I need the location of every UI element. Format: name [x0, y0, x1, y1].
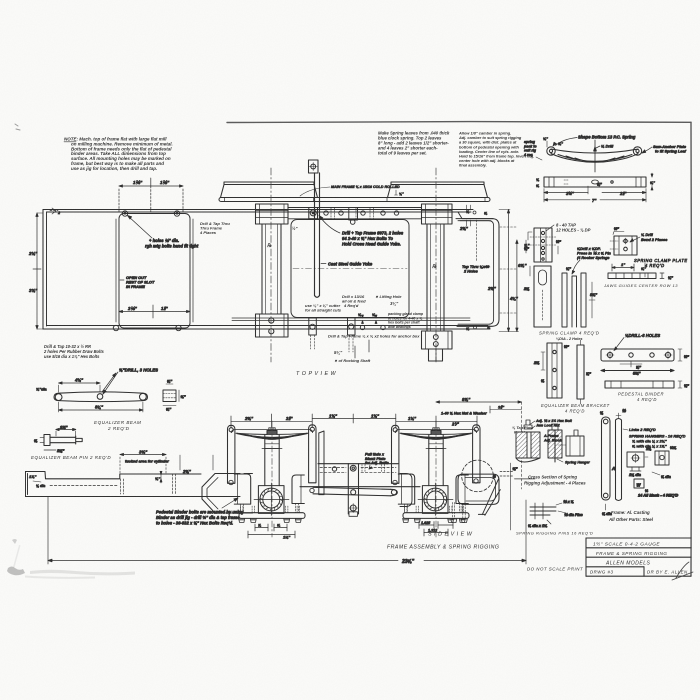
- FRAME ASSEMBLY caption: [387, 545, 499, 551]
- vertical dim 2-13/16 / 3-3/8 left of frame: [28, 213, 43, 329]
- label 5/8 drill 3 holes with leader: [103, 368, 158, 395]
- guide yoke bolt block on rail: [309, 208, 318, 219]
- spring clamp plate labels: [630, 232, 688, 268]
- main frame material label: [300, 185, 404, 196]
- equalizer beam pin detail: [34, 425, 82, 454]
- one inch bar dim: [612, 262, 646, 277]
- top view: spring seat bar (dome flange) full-length: [219, 198, 490, 202]
- pedestal binder bar detail: [601, 349, 689, 388]
- rigging pins caption: [516, 531, 593, 536]
- corner tick top-left: [15, 124, 20, 130]
- spring clamp plate detail: [610, 227, 637, 255]
- equalizer beam detail dims: [36, 373, 143, 412]
- left inner frame opening (rounded rect): [116, 214, 193, 329]
- leader note: 4 holes 5/16 dia: [128, 216, 199, 249]
- slotted bar details below: [523, 266, 551, 327]
- left column plan: body and flanges: [256, 204, 289, 337]
- do not scale print: [527, 567, 583, 572]
- overall length dim 23-5/8: [48, 497, 526, 565]
- sheet top border line: [227, 121, 691, 124]
- 8-40 tap detail caption: [546, 223, 591, 233]
- spring hanger links detail: [600, 409, 626, 516]
- top view: main frame lower rail pair: [43, 326, 490, 330]
- left pedestal: spring buckle and column: [262, 428, 282, 486]
- left pedestal: jaw cheek plates: [234, 474, 304, 513]
- right pedestal: hanger bottom eyes: [393, 479, 478, 485]
- right pedestal: jaw cheek plates: [398, 474, 468, 513]
- dim row above pedestals: [231, 412, 487, 428]
- right pedestal: driving axlebox with journal: [418, 483, 453, 516]
- right pedestal: spring hangers: [392, 425, 480, 484]
- side view: right pedestal jaw and rear end: [451, 460, 535, 530]
- thin guide bars: [562, 267, 597, 327]
- dim 2-5/16 and 1-1/16 below left opening: [119, 305, 190, 318]
- top view: inner bottom rail pair: [232, 318, 470, 321]
- equalizer beam end section detail: [163, 379, 186, 412]
- centerline right cylinder column: [435, 168, 437, 362]
- leaf spring detail (top right): [547, 140, 642, 172]
- dome cap left (spring pocket plan): [221, 182, 318, 198]
- perforated cross bar between columns: [288, 208, 422, 225]
- smudge bottom-left: [7, 539, 135, 579]
- bolt blocks on lower rail: [309, 318, 385, 336]
- equalizer beam caption: [94, 420, 141, 431]
- title row 2: drawing name: [596, 551, 668, 556]
- drilled block detail left: [524, 228, 561, 262]
- frame material note: [608, 510, 654, 522]
- pedestal binder caption: [618, 392, 664, 402]
- spring hanger labels: [623, 427, 686, 449]
- small dim arrows mid lower rail: [355, 313, 436, 361]
- note right of right jaw: [512, 425, 534, 435]
- note: drill tap frame for guide yoke: [319, 216, 404, 247]
- equalizer bracket caption: [541, 403, 610, 414]
- adjusting block details right: [627, 446, 678, 498]
- dims top right of side view: [436, 397, 522, 489]
- note bottom-left: drill and tap bolts: [43, 344, 105, 359]
- left end small marks on upper rail: [50, 208, 61, 215]
- middle opening horizontal centerline: [293, 268, 407, 270]
- spring rigging pin detail bottom-left: [528, 500, 583, 528]
- notes near lower rail center: [305, 294, 424, 363]
- segmented jaw guide strip: [608, 273, 673, 280]
- title row 1: scale and gauge: [593, 540, 660, 547]
- left pedestal: hanger bottom eyes: [229, 480, 314, 492]
- right column plan: body and flanges: [422, 204, 453, 361]
- camber note: [458, 131, 534, 168]
- 1/8 drill 8 holes caption: [614, 333, 660, 351]
- sheet right border line: [690, 122, 693, 576]
- crosshead guide yoke bar (vertical): [309, 160, 320, 297]
- general note block: [64, 137, 173, 171]
- TOP VIEW caption: [296, 371, 337, 377]
- left driver pedestal: leaf spring: [231, 429, 312, 439]
- label R on centerline: [267, 226, 437, 270]
- title row 3: company: [605, 561, 651, 567]
- dim line 1-7/8 and 1-5/16 above left opening: [119, 178, 183, 212]
- pin press note: [572, 247, 612, 274]
- cross-section caption: [524, 475, 586, 486]
- spring leaves note: [378, 131, 450, 156]
- note: open out rest of slot: [120, 275, 155, 289]
- dims left of side view: [29, 450, 213, 489]
- spring seat bar detail: [544, 177, 646, 187]
- dome cap right (spring pocket plan): [388, 182, 488, 198]
- right end dims of top view: [459, 205, 530, 332]
- side view: rail between pedestals: [300, 464, 420, 487]
- top view: rear narrow rail step: [458, 212, 493, 221]
- title row 4: drawing number and signature: [590, 562, 693, 580]
- spring anchor link behind left pedestal right hanger: [319, 431, 324, 495]
- note full thds blank plate: [365, 453, 389, 470]
- right driver pedestal: leaf spring: [395, 429, 476, 439]
- middle inner frame opening: [291, 220, 409, 318]
- label cast steel guide yoke: [321, 262, 373, 267]
- side view: left pedestal jaw: [202, 474, 253, 514]
- spring detail labels: [523, 135, 687, 161]
- jaw guides caption: [603, 283, 678, 288]
- right pedestal: centerline: [435, 421, 437, 537]
- top view: main frame upper rail pair: [43, 210, 473, 213]
- left pedestal: spring hangers: [228, 425, 316, 484]
- dashed bolt stems below lower rail: [311, 335, 354, 352]
- centerline left cylinder column: [270, 168, 272, 362]
- title block box: [586, 538, 691, 576]
- side view: frame left end profile: [26, 472, 241, 497]
- left pedestal: centerline: [271, 421, 273, 537]
- corner bolt circles of left opening: [113, 211, 181, 331]
- right pedestal: binder and bolts: [403, 506, 469, 522]
- equalizer pin caption: [31, 455, 111, 460]
- note: drill and tap thru frame 4 places: [199, 221, 230, 235]
- cross-section labels: [529, 419, 590, 465]
- left pedestal: driving axlebox with journal: [254, 483, 289, 516]
- top view: frame rear right end rounded: [456, 219, 499, 327]
- spring clamp caption: [539, 331, 599, 342]
- top view: frame left end double edge: [43, 210, 47, 330]
- spring seat dims: [536, 173, 655, 203]
- cross-section of spring rigging (hatched): [516, 420, 584, 462]
- pedestal binder note: [156, 498, 244, 526]
- equalizer beam detail: [54, 392, 148, 402]
- dims below pedestals: [248, 521, 453, 540]
- side view: equalizer beam centre assembly: [313, 464, 397, 517]
- side view: plate left of right pedestal: [400, 474, 412, 507]
- right pedestal: spring buckle and column: [426, 428, 446, 486]
- SIDE VIEW caption: [428, 532, 473, 538]
- equalizer beam bracket bars: [533, 340, 591, 404]
- left pedestal: binder and bolts: [239, 506, 305, 522]
